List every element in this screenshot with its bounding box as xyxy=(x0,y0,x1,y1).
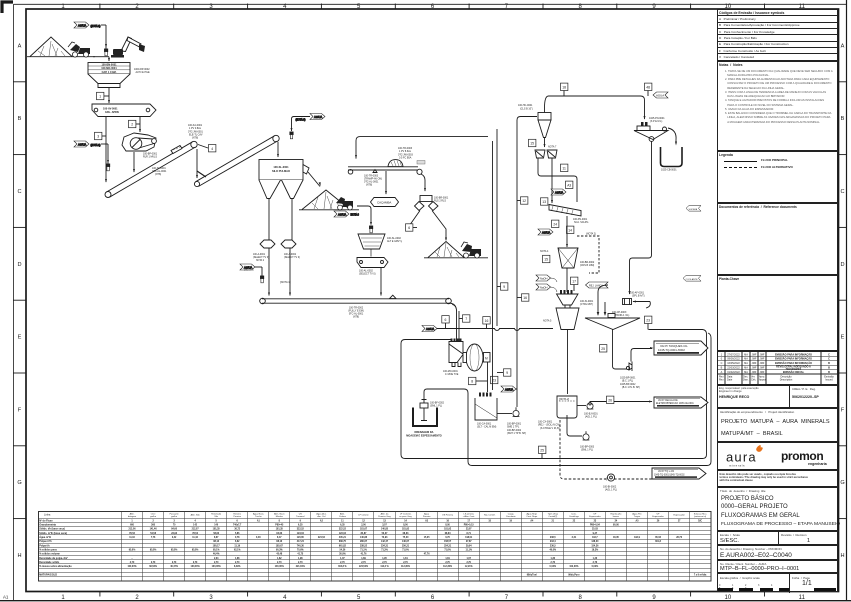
svg-text:(SELECT TV 0): (SELECT TV 0) xyxy=(253,257,269,259)
svg-text:(SML 1 PL): (SML 1 PL) xyxy=(430,405,442,408)
svg-text:Polpa t/h: Polpa t/h xyxy=(39,544,50,547)
svg-text:Cent. Repo: Cent. Repo xyxy=(526,515,538,518)
svg-text:(NT8): (NT8) xyxy=(366,184,372,187)
svg-text:+ Alim. Cent.: + Alim. Cent. xyxy=(463,515,476,518)
svg-text:71,1%: 71,1% xyxy=(360,549,367,551)
legend box xyxy=(717,151,838,203)
belt conveyor 100-TL-0001 xyxy=(105,141,197,197)
svg-text:Description: Description xyxy=(780,379,793,382)
svg-text:promon: promon xyxy=(781,449,823,463)
svg-text:CAÇAMBA: CAÇAMBA xyxy=(377,201,391,205)
wire: pump to electro-winning flag xyxy=(590,396,653,403)
svg-text:4: 4 xyxy=(211,147,213,151)
svg-text:234,31: 234,31 xyxy=(381,544,389,547)
svg-text:(entracao tri): (entracao tri) xyxy=(694,515,706,518)
svg-text:41,76: 41,76 xyxy=(361,553,367,556)
svg-text:A3: A3 xyxy=(425,519,429,522)
wire: drainage pump discharge xyxy=(424,389,464,400)
svg-text:181,92: 181,92 xyxy=(402,529,410,531)
ruler row letters right xyxy=(840,43,844,559)
wheel loader 4 xyxy=(461,242,481,258)
roll crusher 100-BR-0001 xyxy=(415,196,449,211)
svg-text:(SPL B A/T): (SPL B A/T) xyxy=(632,295,645,298)
svg-text:224,52: 224,52 xyxy=(318,536,326,539)
wire: conveyor 2 discharge into silo xyxy=(277,142,279,157)
flow tag 48 xyxy=(645,83,652,96)
svg-text:301,8: 301,8 xyxy=(655,541,661,543)
svg-text:britagem: britagem xyxy=(128,515,137,518)
svg-text:D: D xyxy=(17,262,21,268)
svg-text:(AGL 1 PL): (AGL 1 PL) xyxy=(605,489,617,492)
svg-text:46,0%: 46,0% xyxy=(550,548,557,551)
svg-text:740x7,7: 740x7,7 xyxy=(233,524,242,527)
drainage sump pump 100-BF-0002 xyxy=(406,400,444,438)
water flag AGUA nota 6 at reclaim xyxy=(334,211,359,217)
svg-text:AGUA: AGUA xyxy=(656,94,664,98)
svg-text:VAI P/ CELULA DE: VAI P/ CELULA DE xyxy=(658,399,678,402)
svg-text:[NOTA 1]: [NOTA 1] xyxy=(280,280,291,284)
svg-text:181,35: 181,35 xyxy=(276,529,284,531)
svg-text:99t/u,Puro: 99t/u,Puro xyxy=(568,573,580,576)
svg-text:grelha: grelha xyxy=(150,516,157,518)
svg-text:98t/uTonl: 98t/uTonl xyxy=(527,573,537,576)
svg-text:D: D xyxy=(840,262,844,268)
svg-text:445,21: 445,21 xyxy=(339,536,347,539)
svg-text:600: 600 xyxy=(130,525,135,527)
ball mill feed chute 100-MO-0001 xyxy=(443,339,463,377)
svg-text:3,03: 3,03 xyxy=(256,537,261,539)
svg-text:B: B xyxy=(828,367,830,370)
svg-text:15: 15 xyxy=(530,142,534,146)
svg-text:4: 4 xyxy=(194,519,196,522)
sheet size label A1 bottom-left xyxy=(3,595,9,600)
svg-text:Chk.: Chk. xyxy=(751,379,756,382)
water flag AGUA nota 6 above silo xyxy=(290,114,325,139)
flow tag 25b on outer loop xyxy=(539,446,546,458)
svg-text:112,30%: 112,30% xyxy=(401,566,410,568)
svg-text:22: 22 xyxy=(573,520,576,522)
svg-text:(SELECT TV 0): (SELECT TV 0) xyxy=(284,257,300,259)
svg-text:01/02/2022: 01/02/2022 xyxy=(727,371,740,374)
svg-text:1,07: 1,07 xyxy=(466,558,471,560)
ruler column numbers top xyxy=(61,4,805,10)
transfer chute to conveyor 2 xyxy=(196,149,206,178)
svg-text:C: C xyxy=(828,353,830,356)
svg-text:1: 1 xyxy=(721,353,723,356)
flow tag 25 xyxy=(600,345,607,352)
svg-text:SILO PULMAO: SILO PULMAO xyxy=(272,169,290,173)
svg-text:638,75: 638,75 xyxy=(339,541,347,543)
svg-text:318,01: 318,01 xyxy=(465,537,473,539)
svg-text:0,02%: 0,02% xyxy=(592,566,599,568)
svg-text:90,3%: 90,3% xyxy=(276,549,283,551)
solution pump 100-BJ-0001 xyxy=(577,403,598,419)
svg-text:2,70: 2,70 xyxy=(151,562,156,564)
project identification box xyxy=(717,408,838,442)
svg-text:15,35: 15,35 xyxy=(424,537,430,539)
svg-text:2,70: 2,70 xyxy=(235,562,240,564)
svg-text:A: A xyxy=(841,43,845,49)
svg-text:236,5: 236,5 xyxy=(550,545,556,547)
svg-text:304,8 %: 304,8 % xyxy=(338,565,346,568)
svg-text:11,1%: 11,1% xyxy=(466,549,472,551)
svg-text:254,31: 254,31 xyxy=(444,544,452,547)
svg-text:A2: A2 xyxy=(320,519,324,522)
svg-text:1: 1 xyxy=(131,520,133,522)
svg-text:28,76: 28,76 xyxy=(676,537,682,539)
small flag right edge (coolant) xyxy=(686,206,701,212)
dashed alternative line (nota 2) xyxy=(577,236,599,273)
engineer in charge box xyxy=(717,385,838,408)
solution tank 100-CX-0001 xyxy=(538,396,577,430)
svg-text:17: 17 xyxy=(572,280,576,284)
ball mill shell xyxy=(463,344,490,371)
svg-text:JMF: JMF xyxy=(760,358,765,361)
svg-text:(NOTA 6): (NOTA 6) xyxy=(244,269,254,272)
svg-text:Sólids. t/h (base seca): Sólids. t/h (base seca) xyxy=(39,528,65,531)
svg-text:1045-TQ-0001/1045-TQ-0002: 1045-TQ-0001/1045-TQ-0002 xyxy=(654,474,685,476)
svg-text:Circulante: Circulante xyxy=(506,515,516,518)
destination flag VAI P/ CELULA xyxy=(654,397,708,408)
flow tag 3 xyxy=(95,117,108,183)
svg-text:Centrifugo: Centrifugo xyxy=(569,515,580,518)
alternative pump 100-BI-0002 xyxy=(603,474,617,492)
svg-text:15: 15 xyxy=(544,258,548,262)
ruler row letters left xyxy=(17,43,21,559)
svg-text:1,82: 1,82 xyxy=(277,558,282,560)
svg-text:C: C xyxy=(828,358,830,361)
svg-text:1,68: 1,68 xyxy=(235,558,240,560)
water flag AGUA (nota 6) lower xyxy=(74,141,108,147)
svg-text:(NOTA 6): (NOTA 6) xyxy=(91,25,101,28)
svg-text:23,07: 23,07 xyxy=(466,529,472,531)
drain pump 100-BP-0003 xyxy=(567,415,595,452)
svg-text:112,3 %: 112,3 % xyxy=(380,566,388,568)
svg-text:1,89: 1,89 xyxy=(361,558,366,560)
hydraulic excavator 1000-RP-0002 xyxy=(111,37,145,58)
svg-text:B: B xyxy=(828,371,830,374)
svg-text:H: H xyxy=(17,553,21,559)
svg-text:C: C xyxy=(840,189,844,195)
mill discharge sump box 100-CA-0001 xyxy=(475,393,497,429)
svg-text:12: 12 xyxy=(362,520,365,522)
svg-text:221,81%: 221,81% xyxy=(296,566,305,568)
svg-text:Rev.: Rev. xyxy=(719,379,724,382)
wire: silo hopper outlets to collecting belt xyxy=(253,199,275,296)
svg-text:engenharia: engenharia xyxy=(808,462,827,466)
svg-text:100,00%: 100,00% xyxy=(191,566,200,568)
corner registration mark top-left xyxy=(2,2,13,13)
svg-text:84,60: 84,60 xyxy=(171,528,177,531)
svg-text:A: A xyxy=(721,371,723,374)
svg-text:Peneira Grvy: Peneira Grvy xyxy=(378,516,391,518)
svg-text:Polpa m³/h: Polpa m³/h xyxy=(39,539,52,543)
wire: silo hopper 2 outlet to collecting belt xyxy=(281,199,300,296)
flow tag 17 + recycled flag xyxy=(571,277,609,291)
reagent flags NaOH xyxy=(536,275,557,292)
wire: picking belt head to roll crusher xyxy=(421,174,426,192)
right ruler ticks xyxy=(839,82,847,519)
svg-text:1,07: 1,07 xyxy=(340,558,345,560)
svg-text:10: 10 xyxy=(725,595,732,601)
svg-text:2,70: 2,70 xyxy=(298,562,303,564)
svg-text:13: 13 xyxy=(383,520,386,522)
svg-text:123,04: 123,04 xyxy=(297,532,305,535)
flow tag 7 on chute xyxy=(459,315,470,322)
svg-text:JMF: JMF xyxy=(752,371,757,374)
svg-text:1,98: 1,98 xyxy=(298,558,303,560)
svg-text:8,47: 8,47 xyxy=(277,536,282,539)
svg-text:Appro.: Appro. xyxy=(759,379,767,382)
svg-text:NOTA 7: NOTA 7 xyxy=(548,146,557,149)
svg-text:14: 14 xyxy=(568,229,572,233)
svg-text:(S.CTRLE V M.,B): (S.CTRLE V M.,B) xyxy=(540,427,560,430)
svg-text:48: 48 xyxy=(646,86,650,90)
svg-text:6,35: 6,35 xyxy=(340,525,345,527)
svg-text:Trayso: Trayso xyxy=(634,516,641,518)
svg-text:MATUPA/GOLD: MATUPA/GOLD xyxy=(39,573,57,576)
svg-text:112,30%: 112,30% xyxy=(443,566,452,568)
svg-text:181,92: 181,92 xyxy=(444,529,452,531)
svg-text:Peneira: Peneira xyxy=(423,516,431,518)
wire: mill discharge to sump manifold xyxy=(487,362,489,392)
svg-text:MA: MA xyxy=(744,371,748,374)
svg-text:11: 11 xyxy=(341,520,344,522)
flow tag 6 xyxy=(406,224,418,231)
svg-text:280,67: 280,67 xyxy=(360,541,368,543)
svg-text:(SML 1 PL): (SML 1 PL) xyxy=(581,449,593,452)
svg-text:1,36: 1,36 xyxy=(551,558,556,560)
svg-text:2,70: 2,70 xyxy=(593,562,598,564)
flow tag 9b xyxy=(497,283,508,290)
svg-text:68,63: 68,63 xyxy=(445,533,451,535)
svg-text:2,70: 2,70 xyxy=(172,562,177,564)
left ruler ticks xyxy=(13,82,26,519)
water flag AGUA + process water line to mill xyxy=(422,326,553,332)
svg-text:71,0%: 71,0% xyxy=(402,549,409,551)
svg-text:7 x 9 m³/dia: 7 x 9 m³/dia xyxy=(694,572,707,576)
magnet return line (overhead) xyxy=(355,137,488,159)
slurry pumps 100-BP-0001/0002 xyxy=(497,407,526,435)
svg-text:360: 360 xyxy=(151,525,156,527)
dust spray nozzle + drop line xyxy=(105,25,108,56)
svg-text:Sólids. m³/h (base seca): Sólids. m³/h (base seca) xyxy=(39,531,67,535)
svg-text:G: G xyxy=(840,480,844,486)
svg-text:2,70: 2,70 xyxy=(382,562,387,564)
svg-text:24: 24 xyxy=(615,519,618,522)
svg-text:22/03/2022: 22/03/2022 xyxy=(727,367,740,370)
svg-text:26: 26 xyxy=(608,399,612,403)
svg-text:RLS 2 RLS: RLS 2 RLS xyxy=(434,200,446,203)
svg-text:09/06/2022: 09/06/2022 xyxy=(727,358,740,361)
bottom ruler ticks xyxy=(100,591,765,597)
svg-text:% sólidos volume: % sólidos volume xyxy=(39,553,60,556)
svg-text:(SELECT TV 0): (SELECT TV 0) xyxy=(359,273,376,276)
svg-text:(NT8): (NT8) xyxy=(353,316,359,319)
svg-text:(NOTA 2): (NOTA 2) xyxy=(586,233,596,236)
svg-text:(NT8): (NT8) xyxy=(155,173,161,176)
flow tag 9 on cyclone feed riser xyxy=(497,369,511,376)
svg-text:Nº do Fluxo: Nº do Fluxo xyxy=(39,519,53,522)
flow tag A3 + agua xyxy=(551,181,573,195)
svg-text:(AGL 1 PL): (AGL 1 PL) xyxy=(585,416,597,419)
svg-text:208,5: 208,5 xyxy=(550,537,556,539)
svg-text:(NT8): (NT8) xyxy=(192,137,198,140)
svg-text:185,67: 185,67 xyxy=(276,545,284,547)
svg-text:88,13: 88,13 xyxy=(213,541,219,543)
svg-text:18: 18 xyxy=(488,520,491,522)
svg-text:[NOTA 2]: [NOTA 2] xyxy=(559,398,569,401)
svg-text:100,00%: 100,00% xyxy=(275,566,284,568)
flow tag 23b xyxy=(491,376,498,383)
wire: scalping underflow line xyxy=(496,129,498,326)
water flag AGUA nota 1 under feeders xyxy=(240,264,291,284)
vibrating feeder 100-AL-0002 xyxy=(357,258,388,276)
svg-text:100,00%: 100,00% xyxy=(127,566,136,568)
svg-text:ALTO E PILE: ALTO E PILE xyxy=(136,71,151,74)
svg-text:9: 9 xyxy=(503,285,505,289)
svg-text:128,30: 128,30 xyxy=(591,541,599,543)
svg-text:C: C xyxy=(721,362,723,365)
svg-text:8,00: 8,00 xyxy=(403,525,408,527)
svg-text:Date: Date xyxy=(727,379,733,382)
svg-text:88,10: 88,10 xyxy=(276,541,282,543)
svg-text:140: 140 xyxy=(214,524,219,527)
svg-text:EMISSÃO PARA INFORMAÇÃO: EMISSÃO PARA INFORMAÇÃO xyxy=(775,358,812,361)
svg-text:H: H xyxy=(840,553,844,559)
svg-text:17: 17 xyxy=(467,520,470,522)
collecting belt conveyor 100-TR-0002 xyxy=(260,295,452,318)
svg-text:1025-CB-0001: 1025-CB-0001 xyxy=(661,169,677,172)
vibrating screen 100-SL-0002 xyxy=(358,234,403,257)
client drawing number box xyxy=(717,560,838,573)
svg-text:GRL. APRN: GRL. APRN xyxy=(105,111,119,114)
small flag right edge 2 xyxy=(683,276,701,282)
receiving hopper 100-BN-0001 / 100-MO-0001 xyxy=(88,63,130,88)
svg-text:75,30: 75,30 xyxy=(403,537,409,539)
svg-text:140,88: 140,88 xyxy=(360,536,368,539)
svg-text:8: 8 xyxy=(279,520,281,522)
svg-text:Espessador: Espessador xyxy=(589,516,601,518)
svg-text:11,16: 11,16 xyxy=(129,537,135,539)
svg-text:180,17: 180,17 xyxy=(213,545,221,547)
svg-text:COOLANTE: COOLANTE xyxy=(686,278,699,281)
svg-text:Granulometria: Granulometria xyxy=(39,524,56,527)
svg-text:66,53%: 66,53% xyxy=(149,566,157,568)
svg-text:2,70: 2,70 xyxy=(130,562,135,564)
svg-text:8,71: 8,71 xyxy=(466,533,471,535)
svg-text:E: E xyxy=(841,335,845,341)
svg-text:% massa sobre alimentação: % massa sobre alimentação xyxy=(39,565,72,568)
svg-text:142: 142 xyxy=(193,524,198,527)
svg-text:P80=0,15: P80=0,15 xyxy=(464,525,475,527)
svg-text:68,63: 68,63 xyxy=(403,533,409,535)
recycle line outer loop xyxy=(401,330,707,459)
svg-text:158,57: 158,57 xyxy=(444,541,452,543)
svg-text:25: 25 xyxy=(540,449,544,453)
svg-text:417,24: 417,24 xyxy=(297,540,305,543)
svg-text:84,87: 84,87 xyxy=(361,532,367,535)
flow tag 24 + water xyxy=(538,220,596,235)
svg-text:2,70: 2,70 xyxy=(193,562,198,564)
scalping screen 100-PN-0001 xyxy=(549,205,588,225)
alternative dashed line to leach tanks xyxy=(560,420,652,479)
svg-text:2: 2 xyxy=(152,520,154,522)
wire: loader to hopper xyxy=(93,57,110,62)
cyclone overflow top line xyxy=(545,96,646,120)
surge bin 100-SI-0001 xyxy=(557,268,594,306)
svg-text:B: B xyxy=(828,362,830,365)
svg-text:16/05/2022: 16/05/2022 xyxy=(727,362,740,365)
svg-text:71,0%: 71,0% xyxy=(444,549,451,551)
svg-text:3: 3 xyxy=(97,135,99,139)
ROM stockpile pile 1 xyxy=(27,37,95,57)
svg-text:A: A xyxy=(18,43,22,49)
svg-text:1,81: 1,81 xyxy=(403,558,408,560)
wire: reclaim line to scalper xyxy=(357,206,373,233)
svg-text:8: 8 xyxy=(471,380,473,384)
flow tags 12 / 13 xyxy=(517,197,548,205)
svg-text:P80=0,04: P80=0,04 xyxy=(590,524,601,527)
svg-text:Espessador: Espessador xyxy=(673,515,685,517)
svg-text:100-SL-0001: 100-SL-0001 xyxy=(273,165,289,169)
svg-text:95,0%: 95,0% xyxy=(129,549,136,551)
crusher discharge V-chute to pile 3 xyxy=(407,211,447,242)
svg-text:9,27: 9,27 xyxy=(593,533,598,535)
svg-text:120,65: 120,65 xyxy=(297,537,305,539)
svg-text:JMF: JMF xyxy=(760,362,765,365)
svg-text:% sólidos peso: % sólidos peso xyxy=(39,548,57,551)
svg-text:NOTA 4: NOTA 4 xyxy=(540,250,549,253)
separator overflow arc to launder xyxy=(668,128,677,146)
flow tag 23 on loop xyxy=(645,316,652,329)
svg-text:limans: limans xyxy=(613,516,619,518)
svg-text:7: 7 xyxy=(465,317,467,321)
svg-text:58,63: 58,63 xyxy=(213,533,219,535)
svg-text:41,75: 41,75 xyxy=(297,553,303,556)
svg-text:16: 16 xyxy=(523,296,527,300)
svg-text:E: E xyxy=(18,335,22,341)
svg-text:(SMT 1 TP B. SP): (SMT 1 TP B. SP) xyxy=(507,432,526,435)
svg-text:661,82: 661,82 xyxy=(339,545,347,547)
svg-text:30,0%: 30,0% xyxy=(339,554,346,556)
svg-text:25: 25 xyxy=(601,347,605,351)
svg-text:1045-TQ-0001 /0002: 1045-TQ-0001 /0002 xyxy=(658,348,685,352)
graphic scale row xyxy=(717,573,838,592)
svg-text:13: 13 xyxy=(542,200,546,204)
svg-text:(CTRL M07): (CTRL M07) xyxy=(580,303,593,306)
svg-text:95,0%: 95,0% xyxy=(171,549,178,551)
logos box: aura minerals + promon engenharia xyxy=(717,442,838,470)
svg-text:NaOH: NaOH xyxy=(540,286,548,290)
svg-text:–: – xyxy=(131,558,133,560)
svg-text:102,00%: 102,00% xyxy=(569,566,578,568)
svg-text:Centrif(2): Centrif(2) xyxy=(548,515,557,518)
svg-text:192,9: 192,9 xyxy=(634,537,640,539)
emergency stockpile pile 2 xyxy=(299,190,359,210)
svg-text:740,30: 740,30 xyxy=(297,544,305,547)
svg-text:Alim. Silo: Alim. Silo xyxy=(191,514,201,517)
svg-text:JMF: JMF xyxy=(760,371,765,374)
svg-text:90,00: 90,00 xyxy=(613,525,619,527)
svg-text:100,00%: 100,00% xyxy=(212,566,221,568)
leach feed thickener 100-CP-000X xyxy=(585,311,640,366)
svg-text:8,67: 8,67 xyxy=(214,537,219,539)
svg-text:5,86: 5,86 xyxy=(235,533,240,535)
svg-text:73,93: 73,93 xyxy=(382,537,388,539)
svg-text:9: 9 xyxy=(506,371,508,375)
svg-text:19: 19 xyxy=(509,520,512,522)
